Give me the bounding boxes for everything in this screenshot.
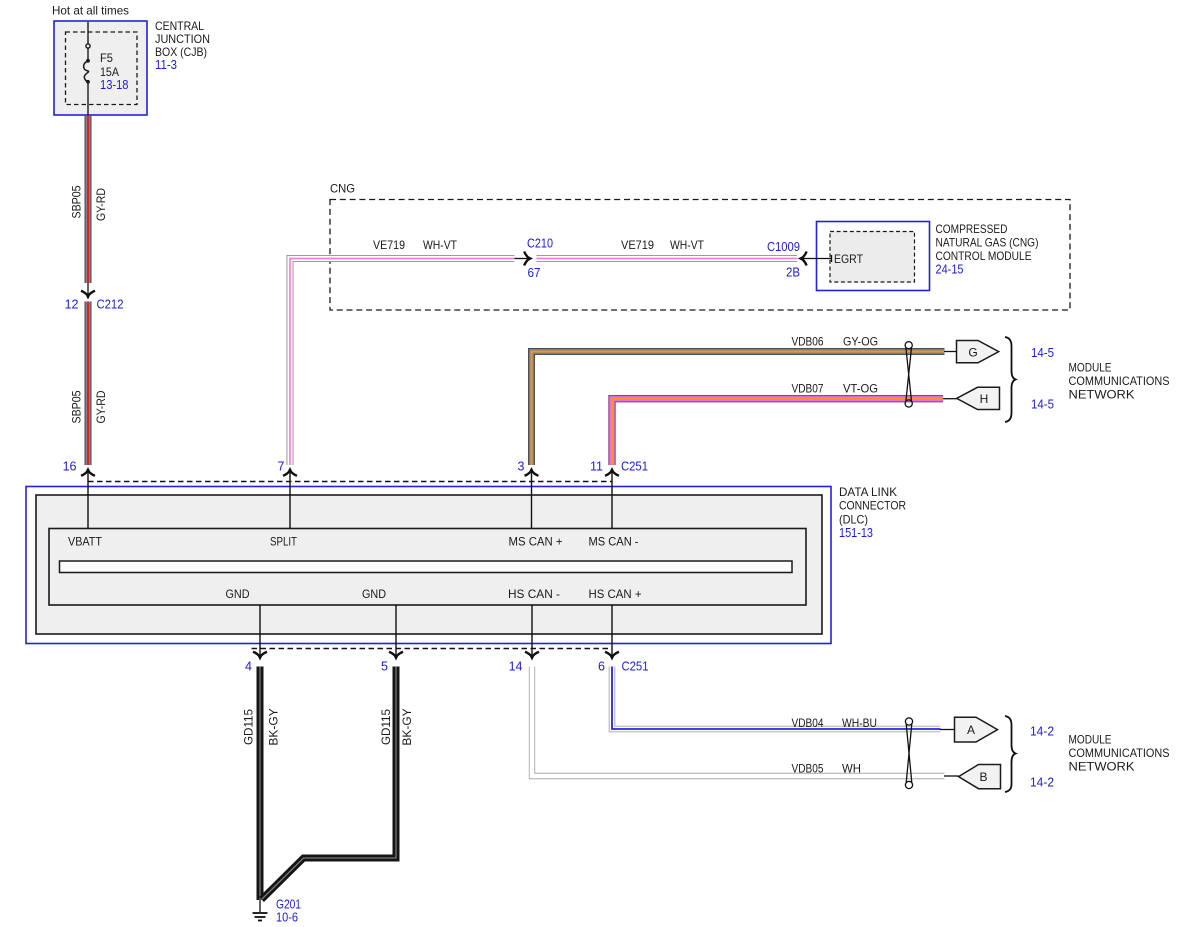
svg-text:B: B [979, 770, 987, 784]
box CNG CONTROL MODULE (EGRT) [817, 222, 930, 291]
svg-text:COMPRESSED: COMPRESSED [936, 222, 1008, 236]
ground G201 [253, 900, 268, 921]
svg-text:CENTRAL: CENTRAL [155, 19, 204, 33]
pin 4 [259, 605, 261, 656]
svg-text:GND: GND [226, 587, 250, 601]
pin 6 [611, 605, 613, 656]
svg-text:NETWORK: NETWORK [1069, 760, 1135, 774]
svg-text:COMMUNICATIONS: COMMUNICATIONS [1069, 746, 1170, 760]
svg-text:CNG: CNG [330, 182, 355, 196]
svg-text:VDB04: VDB04 [792, 716, 824, 730]
svg-text:4: 4 [245, 660, 252, 674]
svg-text:G: G [968, 346, 977, 360]
svg-text:14-2: 14-2 [1030, 725, 1054, 739]
svg-text:14: 14 [509, 660, 523, 674]
svg-text:Hot at all times: Hot at all times [52, 4, 129, 18]
lead to B [944, 775, 959, 777]
svg-text:10-6: 10-6 [276, 911, 298, 925]
svg-text:5: 5 [381, 660, 388, 674]
svg-text:VE719: VE719 [373, 238, 405, 252]
wire VE719 WH-VT segment 1 [290, 259, 515, 466]
svg-text:CONNECTOR: CONNECTOR [839, 499, 906, 513]
svg-text:MS CAN -: MS CAN - [589, 535, 639, 549]
svg-text:VE719: VE719 [621, 238, 654, 252]
svg-text:WH-BU: WH-BU [842, 716, 877, 730]
lead to G [944, 351, 957, 353]
wire VDB05 WH [532, 667, 945, 777]
connector H [957, 387, 1000, 409]
svg-text:13-18: 13-18 [100, 78, 129, 92]
svg-text:GY-RD: GY-RD [94, 188, 108, 221]
connector C212 arrow [87, 283, 89, 296]
svg-text:GY-OG: GY-OG [843, 335, 878, 349]
svg-text:BOX (CJB): BOX (CJB) [155, 45, 207, 59]
svg-text:WH: WH [842, 762, 861, 776]
svg-text:GD115: GD115 [379, 709, 393, 745]
svg-text:VDB07: VDB07 [792, 382, 824, 396]
svg-text:14-5: 14-5 [1031, 398, 1054, 412]
svg-text:24-15: 24-15 [936, 263, 964, 277]
svg-text:BK-GY: BK-GY [267, 708, 281, 745]
svg-text:2B: 2B [786, 266, 800, 280]
svg-text:(DLC): (DLC) [839, 512, 868, 526]
svg-text:MS CAN +: MS CAN + [509, 535, 563, 549]
svg-text:VDB05: VDB05 [792, 762, 824, 776]
svg-text:151-13: 151-13 [839, 526, 873, 540]
pin 7 [289, 470, 291, 529]
svg-text:GND: GND [362, 587, 386, 601]
svg-text:7: 7 [278, 460, 285, 474]
svg-text:C212: C212 [97, 298, 124, 312]
brace (A/B) [1005, 716, 1016, 792]
connector C210 arrow [515, 258, 529, 260]
svg-text:NETWORK: NETWORK [1069, 388, 1135, 402]
svg-text:BK-GY: BK-GY [400, 708, 414, 745]
svg-text:C251: C251 [622, 660, 649, 674]
svg-text:VDB06: VDB06 [792, 335, 824, 349]
svg-text:DATA LINK: DATA LINK [839, 485, 897, 499]
svg-text:11-3: 11-3 [155, 58, 177, 72]
wire VDB04 WH-BU [612, 667, 941, 730]
box DATA LINK CONNECTOR (DLC) [26, 487, 831, 644]
brace (G/H) [1005, 337, 1016, 422]
svg-text:A: A [967, 723, 975, 737]
svg-text:15A: 15A [100, 65, 119, 79]
lead into EGRT pin [803, 255, 832, 262]
svg-text:11: 11 [590, 460, 603, 474]
svg-text:GY-RD: GY-RD [94, 390, 108, 423]
wire SBP05 GY-RD segment 1 [85, 116, 92, 284]
pin 3 [531, 470, 533, 529]
wire SBP05 GY-RD segment 2 [85, 302, 92, 466]
connector G [957, 341, 999, 363]
svg-text:HS CAN +: HS CAN + [589, 587, 642, 601]
DLC slot bar [60, 561, 793, 573]
pin 14 [531, 605, 533, 656]
svg-text:MODULE: MODULE [1069, 361, 1112, 375]
svg-text:NATURAL GAS (CNG): NATURAL GAS (CNG) [936, 236, 1039, 250]
lead to A [940, 729, 955, 731]
svg-text:SBP05: SBP05 [70, 390, 84, 423]
svg-text:VBATT: VBATT [68, 535, 103, 549]
pin 16 [87, 470, 89, 529]
pin 5 [395, 605, 397, 656]
svg-text:GD115: GD115 [242, 709, 256, 745]
connector B [959, 765, 1001, 789]
svg-text:16: 16 [63, 460, 77, 474]
pin 11 [611, 470, 613, 529]
twisted pair symbol (G/H) [905, 342, 912, 408]
connector A [955, 717, 998, 742]
box CENTRAL JUNCTION BOX (CJB) [54, 21, 147, 115]
svg-text:3: 3 [518, 460, 525, 474]
svg-text:SPLIT: SPLIT [270, 535, 298, 549]
svg-text:MODULE: MODULE [1069, 733, 1112, 747]
svg-text:12: 12 [65, 298, 79, 312]
wire GD115 BK-GY (pin 4) [257, 667, 264, 901]
svg-text:G201: G201 [276, 898, 301, 912]
svg-text:C251: C251 [621, 460, 648, 474]
svg-text:C210: C210 [527, 237, 553, 251]
fuse F5 15A [84, 22, 90, 115]
svg-text:WH-VT: WH-VT [423, 238, 458, 252]
svg-text:COMMUNICATIONS: COMMUNICATIONS [1069, 374, 1170, 388]
svg-text:VT-OG: VT-OG [843, 382, 878, 396]
dashed connector line (top C251) [88, 481, 612, 483]
svg-text:CONTROL MODULE: CONTROL MODULE [936, 249, 1032, 263]
svg-text:14-5: 14-5 [1031, 346, 1054, 360]
connector C1009 arrow [798, 252, 807, 266]
dashed inner CJB box [66, 32, 138, 105]
wire VE719 WH-VT segment 2 [537, 255, 798, 262]
dashed connector line (bottom C251) [252, 648, 613, 650]
svg-text:H: H [980, 392, 989, 406]
wire GD115 BK-GY (pin 5) [262, 667, 397, 900]
svg-text:F5: F5 [100, 51, 113, 65]
svg-text:67: 67 [528, 266, 541, 280]
svg-text:SBP05: SBP05 [70, 185, 84, 218]
svg-text:EGRT: EGRT [834, 252, 864, 266]
lead to H [943, 398, 957, 400]
wire VDB07 VT-OG [612, 399, 943, 465]
wire VDB06 GY-OG [532, 352, 945, 466]
svg-text:6: 6 [598, 660, 605, 674]
twisted pair symbol (A/B) [905, 718, 912, 789]
svg-text:C1009: C1009 [767, 240, 800, 254]
svg-text:WH-VT: WH-VT [670, 238, 705, 252]
svg-text:HS CAN -: HS CAN - [508, 587, 560, 601]
svg-text:14-2: 14-2 [1030, 776, 1054, 790]
